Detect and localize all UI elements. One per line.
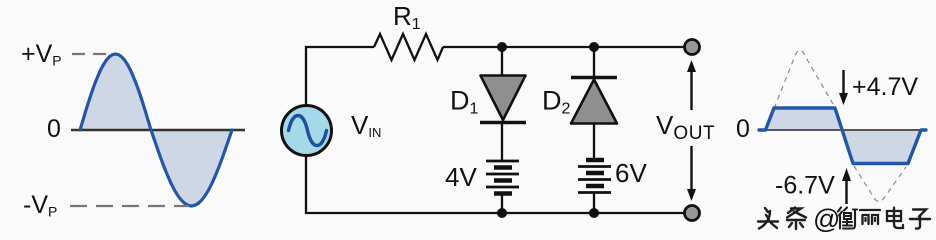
watermark glyph 子 <box>910 210 930 229</box>
wire: D1 anode stub <box>501 47 503 76</box>
wire: D1 to 4V battery <box>501 122 503 161</box>
output clipped waveform stroke <box>759 108 926 164</box>
diode D2 cathode bar <box>571 76 617 79</box>
dashed unclipped trough <box>854 166 906 202</box>
watermark glyph 电 <box>887 208 903 229</box>
+4.7V arrow down <box>842 70 844 99</box>
+Vp dashed level line <box>72 53 114 55</box>
watermark glyph 头 <box>758 208 778 229</box>
diode D2 triangle <box>571 80 617 124</box>
wire: D2 cathode stub <box>593 47 595 78</box>
input waveform axis <box>71 129 245 132</box>
svg-text:6V: 6V <box>615 158 647 188</box>
svg-text:0: 0 <box>47 115 61 143</box>
watermark glyph 衡 <box>838 208 857 229</box>
svg-text:+4.7V: +4.7V <box>852 73 918 101</box>
wire: left vertical upper <box>305 46 307 105</box>
battery 4V plates <box>486 161 519 194</box>
output waveform axis <box>759 129 927 131</box>
dashed unclipped peak <box>767 50 833 126</box>
junction dot top D2 <box>589 42 599 52</box>
wire: left vertical lower <box>305 156 307 214</box>
resistor R1 zigzag <box>374 34 443 60</box>
wire: top from R1 to output terminal <box>443 46 685 48</box>
output waveform fill <box>759 108 921 164</box>
svg-text:-6.7V: -6.7V <box>775 172 835 200</box>
wire: 6V battery to bottom rail <box>593 192 595 213</box>
wire: bottom from source to output terminal <box>305 212 685 214</box>
watermark glyph 丽 <box>860 210 880 224</box>
wire: 4V battery to bottom rail <box>501 193 503 213</box>
svg-text:4V: 4V <box>445 162 477 192</box>
diode D1 cathode bar <box>480 121 526 124</box>
Vout arrow down <box>690 146 692 193</box>
junction dot bottom D2 <box>589 208 599 218</box>
wire: D2 to 6V battery <box>593 123 595 158</box>
svg-text:@: @ <box>813 204 840 234</box>
diode D1 triangle <box>481 76 526 121</box>
watermark glyph 条 <box>787 208 806 230</box>
source sine symbol <box>289 116 327 146</box>
output terminal bottom <box>685 206 700 221</box>
wire: top from source to R1 <box>305 46 374 48</box>
junction dot bottom D1 <box>497 208 507 218</box>
battery 6V plates <box>578 160 611 193</box>
input sine wave fill <box>80 54 232 206</box>
source V_IN circle <box>282 106 332 156</box>
output terminal top <box>685 40 700 55</box>
-Vp dashed level line <box>70 205 189 207</box>
svg-text:0: 0 <box>736 115 750 143</box>
junction dot top D1 <box>497 42 507 52</box>
-6.7V arrow up <box>845 175 847 204</box>
input sine wave stroke <box>80 54 232 206</box>
Vout arrow up <box>690 68 692 110</box>
